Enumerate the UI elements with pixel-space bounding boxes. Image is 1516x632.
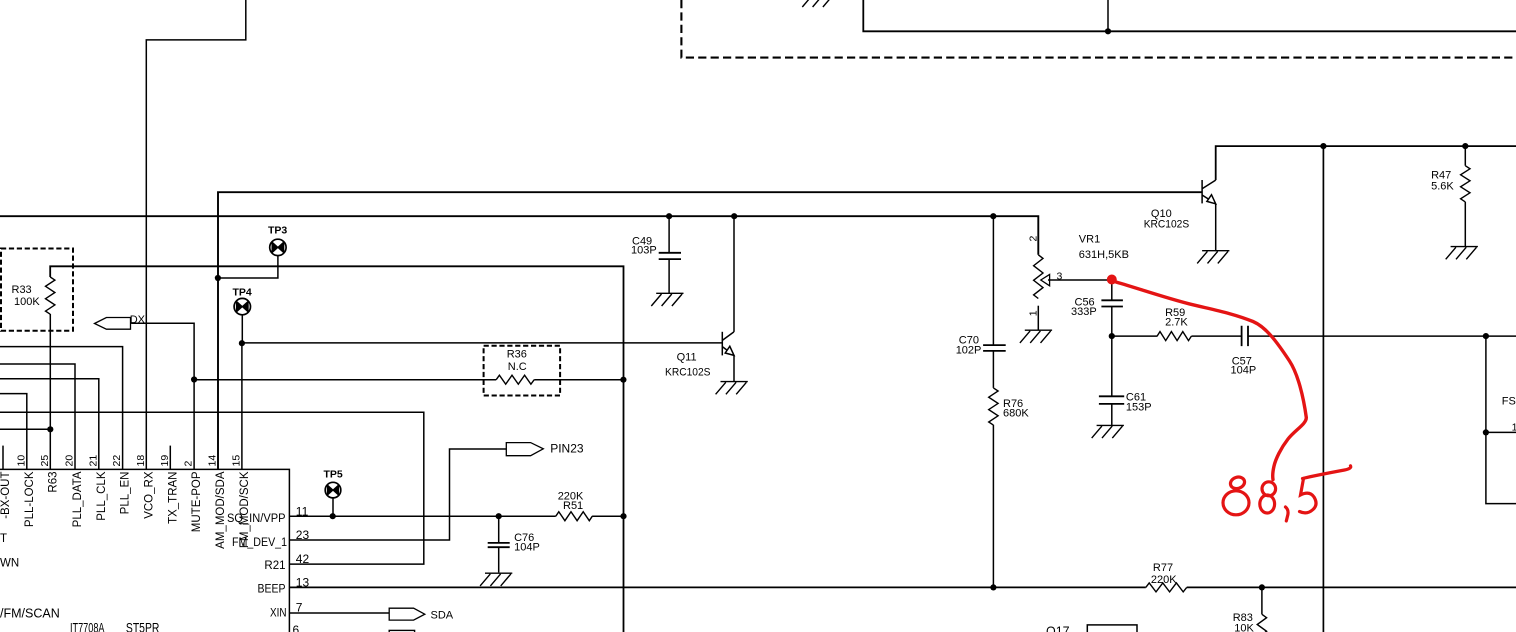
svg-text:18: 18 [135,455,147,467]
test point TP5 [325,482,341,498]
label C56 value [1071,297,1097,319]
svg-text:PLL_DATA: PLL_DATA [72,471,84,527]
wire TP4 to pin15 node [241,315,243,343]
svg-text:2: 2 [183,461,195,467]
svg-text:21: 21 [87,455,99,467]
test point TP4 [234,298,250,314]
label C61 value [1126,392,1152,414]
wire C49 bottom [668,259,670,293]
junction node R47 [1462,143,1468,149]
transistor Q10 [1202,180,1216,204]
wire Q10 collector net [1216,146,1516,180]
wire FS pin1 [1486,431,1516,433]
svg-text:IT7708A: IT7708A [70,620,105,632]
wire left to pin22 PLL_EN [0,347,123,470]
wire top box left [863,0,1516,31]
wire pin15 FM_MOD/SCK [241,343,243,469]
wire main net to VR1 pin2 [0,216,1038,255]
label Q10 value [1144,208,1190,231]
svg-text:10: 10 [15,455,27,467]
svg-text:VCO_RX: VCO_RX [143,471,155,519]
net flag DX [95,318,131,330]
net flag PIN23 [506,443,543,456]
ground VR1 [1020,330,1052,343]
svg-text:104P: 104P [514,542,540,554]
wire left to pin42 R21 [0,412,424,564]
wire R47 top [1464,146,1466,166]
junction node R76/BEEP [990,584,996,590]
wire pin11 SG_IN/VPP net [289,515,555,517]
svg-text:22: 22 [111,455,123,467]
annotation red 8 first [1223,475,1249,515]
capacitor C57 plates [1242,326,1248,346]
resistor R59 [1157,332,1191,341]
label R33 value [12,284,41,308]
capacitor C70 plates [983,345,1006,351]
wire pin23 to PIN23 flag [289,449,506,540]
svg-text:VR1: VR1 [1079,234,1100,246]
wire C76 bottom [498,547,500,572]
ground C49 [651,293,683,306]
wire R36 net left [194,379,496,381]
wire R51 right to DX bus [592,515,623,517]
label R36 value [507,349,527,374]
capacitor C76 plates [488,543,510,547]
svg-text:2: 2 [1027,236,1039,242]
pin stub BX-OUT [2,446,4,470]
svg-text:15: 15 [230,455,242,467]
annotation red curve [1116,282,1306,480]
annotation red 5 [1300,466,1351,513]
svg-text:42: 42 [296,552,310,566]
wire C70 to R76 [992,351,994,388]
svg-text:333P: 333P [1071,306,1097,318]
ground Q11 [716,382,748,395]
label R77 value [1151,562,1177,586]
test point TP3 [270,239,286,255]
label Q11 value [665,352,711,379]
svg-text:XIN: XIN [270,608,287,620]
svg-text:R77: R77 [1153,562,1173,574]
svg-text:R51: R51 [563,500,583,512]
wire BEEP net right [1187,586,1516,588]
svg-text:23: 23 [296,528,310,542]
ground R47 [1446,247,1478,260]
pin 19 stub TX_TRAN [169,446,171,470]
svg-text:PLL_EN: PLL_EN [120,472,132,515]
transistor Q11 [722,332,734,356]
label VR1 value [1079,234,1129,262]
wire AM_MOD/SDA bus to Q10 base [218,192,1202,469]
svg-text:Q17: Q17 [1046,625,1070,632]
junction node C70 [990,213,996,219]
svg-text:KRC102S: KRC102S [665,367,711,379]
dashed border top [681,0,1516,58]
svg-text:1: 1 [1512,421,1516,433]
svg-text:FM_MOD/SCK: FM_MOD/SCK [239,471,251,548]
svg-text:TP5: TP5 [324,469,343,481]
wire DX to pin2 MUTE-POP [131,323,194,469]
wire TP5 stub [332,498,334,516]
capacitor C56 plates [1101,300,1123,306]
label C57 value [1231,356,1257,377]
svg-text:Q11: Q11 [677,352,697,364]
wire top corner to pin18 VCO_RX [146,0,246,469]
dashed box R33 [1,249,73,331]
annotation red probe dot [1107,275,1117,285]
wire R33 bottom to pin 25 R63 [49,314,51,469]
svg-text:2.7K: 2.7K [1165,317,1188,329]
resistor R83 [1257,614,1266,632]
svg-text:KRC102S: KRC102S [1144,219,1190,231]
svg-text:T: T [0,533,7,545]
svg-text:R36: R36 [507,349,527,361]
label C70 value [956,335,982,357]
wire TP3 to pin14 node [218,256,278,278]
ground partial top [802,0,833,7]
IC U1 IT7708A box edge [0,469,289,632]
svg-text:104P: 104P [1231,365,1257,377]
annotation red 8 second [1260,482,1276,513]
svg-text:WN: WN [0,557,19,569]
wire left to R63 node [0,428,50,430]
svg-text:ST5PR: ST5PR [126,620,160,632]
junction node top box [1105,28,1111,34]
label R51 value [558,491,584,513]
box Q17 bottom [1087,625,1137,632]
svg-text:R63: R63 [47,472,59,493]
svg-text:R33: R33 [12,284,32,296]
wire C70 top [992,216,994,345]
svg-text:11: 11 [296,504,309,518]
ground C61 [1092,425,1124,438]
junction node vert right [1320,143,1326,149]
svg-text:TX_TRAN: TX_TRAN [167,472,179,524]
svg-text:PLL_CLK: PLL_CLK [96,471,108,521]
svg-text:680K: 680K [1003,408,1029,420]
wire C49 top [668,216,670,253]
wire R83 top [1261,587,1263,614]
label C49 value [631,236,657,257]
junction node R36/bus [620,377,626,383]
svg-text:N.C: N.C [508,361,527,373]
wire left to pin20 PLL_DATA [0,364,75,469]
wire R59 to C57 [1191,335,1241,337]
resistor R47 [1461,166,1470,202]
svg-text:FS-: FS- [1502,396,1516,408]
junction node pin14/TP3 [215,275,221,281]
svg-text:R21: R21 [264,560,285,572]
wire left to pin21 PLL_CLK [0,379,99,470]
junction node FS pin1 [1483,429,1489,435]
svg-text:103P: 103P [631,244,657,256]
crystal box bottom [389,630,414,632]
svg-text:-BX-OUT: -BX-OUT [0,472,12,519]
wire BEEP pin13 net [289,586,1145,588]
svg-text:6: 6 [293,623,300,632]
wire FS node vertical [1486,336,1516,504]
svg-text:102P: 102P [956,345,982,357]
label R47 value [1431,170,1454,193]
junction node C76 [496,513,502,519]
wire top box right vertical [1107,0,1109,31]
svg-text:TP3: TP3 [268,225,287,237]
junction node R51/bus [620,513,626,519]
resistor R33 [46,277,55,314]
wire Q11 collector [733,216,735,332]
svg-text:AM_MOD/SDA: AM_MOD/SDA [215,471,227,549]
svg-text:BEEP: BEEP [258,583,286,595]
svg-text:13: 13 [296,575,310,589]
capacitor C49 plates [659,253,681,259]
junction node pin15/TP4 [239,340,245,346]
ground Q10 [1197,251,1229,264]
resistor R76 [989,388,998,425]
svg-text:10K: 10K [1234,623,1254,632]
svg-text:20: 20 [64,455,76,467]
svg-text:SDA: SDA [431,609,454,621]
junction node Q11 collector [731,213,737,219]
wire R76 to BEEP net [992,425,994,588]
junction node R63 [47,426,53,432]
wire long vertical right [1322,146,1324,632]
junction node C49 [666,213,672,219]
annotation red comma [1286,507,1289,521]
potentiometer VR1 wiper arrow [1041,274,1050,285]
net flag SDA [389,608,425,620]
ground C76 [480,573,512,586]
svg-text:19: 19 [159,455,171,467]
resistor R77 [1146,583,1187,592]
wire R33 to DX bus [50,266,623,632]
junction node C56/R59/C61 [1109,333,1115,339]
wire Q11 base [242,342,723,344]
svg-text:SQ_IN/VPP: SQ_IN/VPP [227,513,286,525]
wire C57 to right [1248,335,1516,337]
wire C61 top [1111,336,1113,396]
wire R36 net right [534,379,623,381]
label R76 value [1003,398,1029,420]
svg-text:153P: 153P [1126,402,1152,414]
svg-text:DX: DX [130,314,146,326]
wire node to R59 [1112,335,1158,337]
dashed box R36 [484,346,560,396]
wire XIN pin7 to SDA flag [289,612,389,614]
wire Q10 emitter to ground [1215,204,1217,251]
wire C56 top [1111,280,1113,300]
svg-text:MUTE-POP: MUTE-POP [191,471,203,532]
svg-text:631H,5KB: 631H,5KB [1079,249,1129,261]
wire VR1 wiper [1048,279,1112,281]
label C76 value [514,532,540,554]
junction node FS top [1483,333,1489,339]
svg-text:14: 14 [207,455,219,467]
svg-text:100K: 100K [14,296,40,308]
label R59 value [1165,307,1188,329]
svg-text:/FM/SCAN: /FM/SCAN [0,607,60,621]
junction node R83 [1259,584,1265,590]
svg-text:25: 25 [39,455,51,467]
label R83 value [1233,612,1255,632]
wire C76 top [498,516,500,543]
wire C56 bottom to node [1111,307,1113,337]
wire C61 bottom [1111,404,1113,426]
svg-text:5.6K: 5.6K [1431,181,1454,193]
junction node pin2/DX [191,376,197,382]
wire R47 bottom [1464,202,1466,247]
svg-text:7: 7 [296,600,303,614]
resistor R36 [496,375,534,384]
potentiometer VR1 body [1034,255,1043,299]
svg-text:3: 3 [1057,271,1063,283]
svg-text:TP4: TP4 [233,287,252,299]
wire VR1 pin1 to ground [1037,306,1039,331]
svg-text:PLL-LOCK: PLL-LOCK [24,471,36,527]
junction node TP5 [330,513,336,519]
wire Q11 emitter to ground [733,355,735,381]
capacitor C61 plates [1099,396,1124,404]
svg-text:220K: 220K [1151,574,1177,586]
wire left to pin10 [0,394,27,470]
svg-text:PIN23: PIN23 [550,442,584,456]
resistor R51 [556,512,592,521]
svg-text:1: 1 [1027,310,1039,316]
